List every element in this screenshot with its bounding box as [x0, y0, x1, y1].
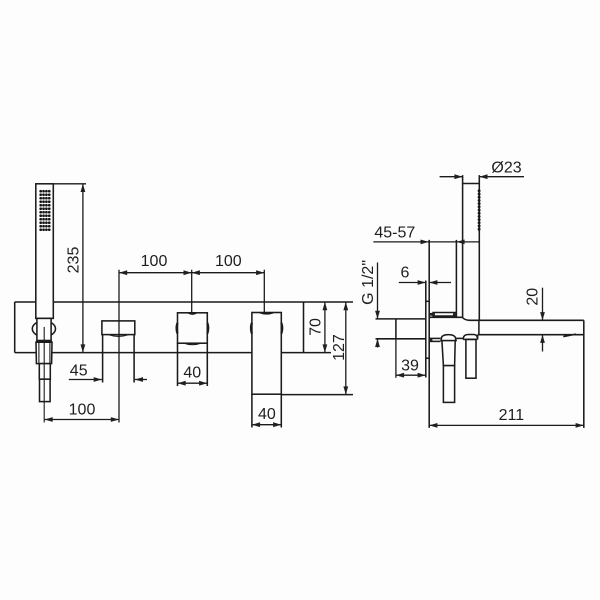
mixer body (side view) — [430, 317, 471, 338]
svg-text:100: 100 — [69, 402, 96, 419]
svg-text:G 1/2": G 1/2" — [360, 260, 377, 305]
wall plate (side view) — [426, 240, 429, 428]
dimension 40 (element 3) — [178, 381, 208, 386]
dimension 6 (plate thickness) — [399, 280, 451, 285]
svg-text:40: 40 — [183, 364, 201, 381]
svg-text:45-57: 45-57 — [374, 225, 415, 242]
dimension Ø23 — [440, 174, 524, 179]
dimension 45-57 — [373, 240, 479, 245]
handle dome — [440, 335, 457, 341]
shower socket bump — [463, 335, 477, 340]
shower handle neck through ball — [37, 318, 51, 340]
spray dots (side view) — [478, 189, 481, 230]
handle element 3 (front view) — [177, 313, 209, 386]
dimension 45 (knob width) — [69, 377, 147, 382]
dimension 127 (plate top to spout bottom) — [343, 302, 348, 395]
svg-text:235: 235 — [66, 247, 83, 274]
dimension G 1/2" — [375, 263, 380, 348]
knob element 2 (front view) — [102, 321, 135, 383]
svg-text:45: 45 — [70, 363, 88, 380]
hose upper segment — [39, 364, 50, 380]
svg-text:100: 100 — [215, 253, 242, 270]
hand shower stick (front view) — [36, 184, 54, 319]
svg-text:127: 127 — [331, 334, 348, 361]
handle axis line — [43, 327, 45, 423]
hand shower cylinder (side view) — [463, 175, 480, 320]
spray nozzle dots — [39, 190, 50, 231]
dimension 235 — [53, 184, 86, 353]
svg-text:40: 40 — [258, 406, 276, 423]
dimension 40 (element 4) — [252, 422, 281, 427]
spout (side view) — [470, 320, 584, 428]
dimension 211 — [429, 423, 584, 428]
extension line bottom of spout (front view) — [281, 394, 353, 396]
dimension 39 — [396, 339, 426, 378]
bottom arm (side view) — [429, 338, 441, 341]
svg-text:70: 70 — [308, 318, 325, 336]
handle stem (side view) — [443, 366, 454, 403]
svg-text:39: 39 — [401, 357, 419, 374]
svg-text:100: 100 — [141, 253, 168, 270]
dimension 70 (plate height) — [323, 302, 328, 353]
svg-text:Ø23: Ø23 — [491, 159, 521, 176]
wall plate (front view) — [15, 302, 353, 353]
holder front face line — [455, 240, 457, 317]
dimension 100 (bottom, shower to knob) — [45, 417, 120, 422]
hose nut cone — [36, 342, 52, 363]
extension lines for 100/100 chain — [119, 270, 264, 423]
shower lower grip (side view) — [466, 339, 476, 378]
dimension 20 (spout height) — [540, 288, 545, 352]
svg-text:211: 211 — [499, 407, 525, 424]
shower holder ball (front view) — [32, 321, 55, 337]
hose lower segment — [40, 379, 51, 401]
holder arm (top, side view) — [429, 313, 456, 317]
svg-text:20: 20 — [524, 288, 541, 306]
spout element 4 (front view) — [251, 313, 282, 428]
inlet pipe (side view) — [376, 319, 426, 339]
dimension 100 (top left segment) — [119, 270, 264, 275]
handle cone (side view) — [442, 341, 455, 366]
svg-text:6: 6 — [401, 265, 410, 282]
